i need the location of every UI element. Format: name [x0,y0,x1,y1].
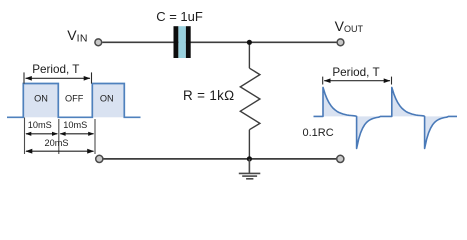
arrow 10mS second [60,133,93,135]
arrow 20mS [26,150,94,152]
wire resistor vertical bottom [248,130,250,159]
svg-text:Period, T: Period, T [332,66,379,79]
svg-text:ON: ON [100,94,114,104]
dimension tick 3 [94,119,96,154]
svg-text:VIN: VIN [67,27,87,44]
svg-text:OFF: OFF [65,94,84,104]
svg-text:20mS: 20mS [44,138,68,148]
wire bottom rail [103,158,336,160]
svg-text:VOUT: VOUT [335,18,364,34]
svg-text:0.1RC: 0.1RC [303,127,334,139]
left waveform fill pulse 2 [92,84,124,118]
svg-text:R = 1kΩ: R = 1kΩ [183,88,235,103]
terminal bottom-right [337,155,344,162]
svg-text:ON: ON [34,94,48,104]
period ticks left [23,72,25,83]
svg-text:10mS: 10mS [28,120,52,130]
period arrow left [26,77,91,79]
terminal VIN [95,39,102,46]
right waveform curve [314,87,458,148]
svg-text:10mS: 10mS [63,120,87,130]
period ticks right [322,77,324,85]
wire resistor vertical top [248,42,250,68]
left waveform fill pulse 1 [23,84,58,118]
node junction top [247,40,252,45]
right waveform fill spike 1 positive [323,87,357,116]
capacitor C1 plates [174,26,191,58]
dimension tick 1 [24,118,26,155]
resistor R zigzag [240,68,260,130]
left waveform square wave [7,84,141,118]
arrow 10mS first [26,133,57,135]
dimension tick 2 [58,119,60,154]
terminal VOUT [337,39,344,46]
svg-text:Period, T: Period, T [32,63,79,76]
right waveform fill spike 2 positive [392,87,425,116]
ground [239,159,260,179]
right waveform fill spike 2 negative [425,116,449,148]
wire top rail [102,41,336,43]
right waveform fill spike 1 negative [357,116,381,148]
svg-text:C = 1uF: C = 1uF [156,9,203,24]
terminal bottom-left [96,155,103,162]
node junction bottom [247,156,252,161]
period arrow right [324,80,390,82]
